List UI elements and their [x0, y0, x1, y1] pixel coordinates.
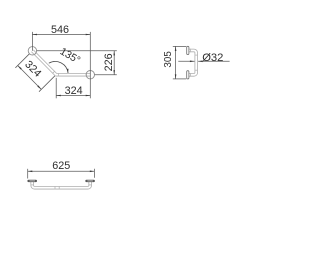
dimension 324 diagonal arrow lower: [37, 85, 41, 89]
dimension 226 line: [113, 51, 115, 75]
dimension 226 extension line bottom: [95, 74, 117, 76]
dimension 324 diagonal extension line upper: [15, 54, 29, 68]
dimension 625 line: [28, 170, 95, 172]
svg-text:324: 324: [65, 85, 83, 97]
side view top flange plate: [187, 46, 189, 54]
dimension 546 line: [32, 34, 90, 36]
svg-text:305: 305: [163, 51, 174, 68]
top view tube: [32, 182, 90, 188]
top view left flange plate end caps: [28, 180, 37, 182]
angle 135 arc arrow: [67, 69, 69, 73]
dimension 324 diagonal extension line lower: [39, 76, 55, 92]
dimension diameter 32 leader left: [178, 60, 194, 62]
dimension 625 extension line right: [93, 169, 95, 178]
dimension 546 arrow left: [32, 34, 37, 36]
dimension 226 extension line top: [37, 50, 117, 52]
dimension 226 arrow bottom: [113, 70, 115, 75]
side view tube: [189, 50, 197, 74]
dimension 305 line: [175, 46, 177, 79]
svg-text:Ø32: Ø32: [202, 52, 223, 64]
dimension 324 bottom line: [56, 95, 90, 97]
dimension 625 arrow left: [28, 171, 33, 173]
dimension 324 bottom extension line left: [55, 78, 57, 99]
dimension 305 extension line top: [173, 45, 186, 47]
front view tube: [32, 51, 90, 75]
front view tube joint ticks: [34, 52, 86, 76]
front view right flange circle: [86, 71, 94, 79]
dimension 324 bottom arrow left: [56, 95, 61, 97]
dimension 625 extension line left: [27, 169, 29, 179]
dimension 546 extension line left: [31, 32, 33, 51]
top view right flange plate: [86, 180, 95, 182]
dimension 226 arrow top: [113, 51, 115, 56]
dimension diameter 32 arrow right: [198, 61, 203, 63]
top view right flange plate end caps: [86, 180, 95, 182]
svg-text:546: 546: [51, 24, 69, 36]
angle 135 arc: [49, 61, 68, 73]
dimension 625 arrow right: [90, 171, 95, 173]
dimension 324 diagonal arrow upper: [18, 66, 22, 70]
svg-text:625: 625: [52, 160, 70, 172]
dimension 546 + 324 extension line right: [89, 32, 91, 98]
top view left flange plate: [28, 180, 37, 182]
dimension 305 extension line bottom: [173, 78, 186, 80]
dimension 324 bottom arrow right: [86, 95, 91, 97]
side view tube joint ticks: [191, 49, 198, 77]
dimension 546 arrow right: [86, 34, 91, 36]
side view bottom flange plate: [187, 71, 189, 79]
dimension diameter 32 leader right: [198, 60, 230, 62]
dimension 305 arrow top: [175, 46, 177, 51]
top view tube joint ticks: [31, 185, 93, 190]
dimension 324 diagonal line: [18, 66, 42, 90]
svg-text:226: 226: [103, 53, 115, 71]
front view left flange circle: [28, 47, 36, 55]
dimension diameter 32 arrow left: [190, 61, 195, 63]
dimension 305 arrow bottom: [175, 74, 177, 79]
